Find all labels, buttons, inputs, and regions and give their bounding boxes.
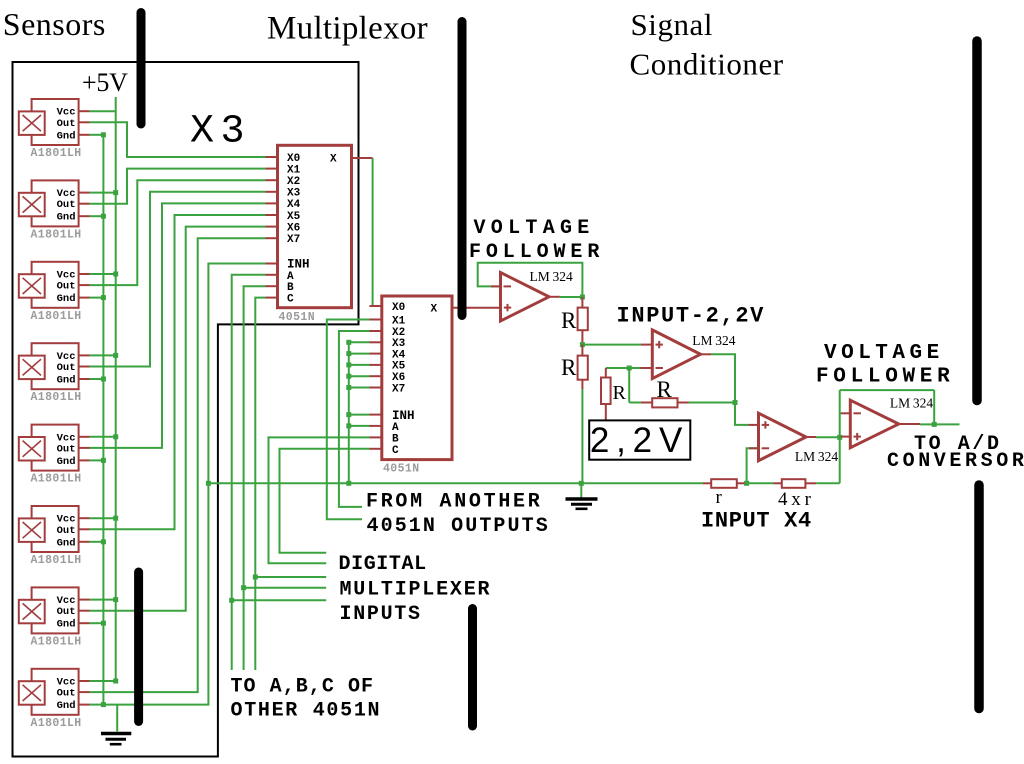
svg-text:Gnd: Gnd <box>57 130 76 142</box>
label DIGITAL MULTIPLEXER INPUTS <box>339 553 492 626</box>
wire S7 Gnd to GND rail <box>90 622 104 624</box>
wire to main ground symbol <box>580 483 582 497</box>
svg-text:Gnd: Gnd <box>57 293 76 305</box>
label A1801LH (S6) <box>31 554 82 567</box>
junction S1 Gnd <box>101 132 106 137</box>
wire U3D - input <box>840 412 850 414</box>
junction S3 Vcc <box>113 272 118 277</box>
ground symbol (main) <box>566 499 598 509</box>
label INPUT X4 <box>701 509 812 534</box>
svg-text:Out: Out <box>57 606 76 618</box>
label U2 4051N <box>383 463 420 476</box>
wire U3B output to feedback node <box>701 354 736 402</box>
wire S7 Out to U1 X6 <box>90 227 266 611</box>
wire U1 A (to A bus) <box>232 275 327 670</box>
junction U3B - node <box>627 366 632 371</box>
label A1801LH (S1) <box>31 147 82 160</box>
wire S1 Gnd to GND rail <box>90 134 104 136</box>
label A1801LH (S8) <box>31 717 82 730</box>
section title: Sensors <box>3 6 106 42</box>
label X3 <box>190 110 251 155</box>
op-amp U3A LM324 voltage follower <box>501 273 550 322</box>
svg-text:Out: Out <box>57 443 76 455</box>
wire U2 X3..X7,INH,A stub bus to gnd <box>346 340 369 484</box>
svg-text:Gnd: Gnd <box>57 212 76 224</box>
source box 2,2V <box>589 420 690 460</box>
svg-text:+5V: +5V <box>82 68 128 97</box>
svg-text:Gnd: Gnd <box>57 375 76 387</box>
wire U3C output <box>806 436 840 438</box>
wire S1 Vcc to +5V rail <box>90 110 116 112</box>
svg-text:Gnd: Gnd <box>57 456 76 468</box>
label R3 <box>613 382 627 404</box>
svg-text:X: X <box>431 304 438 316</box>
svg-text:X3: X3 <box>190 110 251 155</box>
wire S1 Out to U1 X0 <box>90 122 266 157</box>
svg-text:X3: X3 <box>287 188 301 200</box>
svg-text:CONVERSOR: CONVERSOR <box>887 450 1024 473</box>
svg-text:Out: Out <box>57 118 76 130</box>
label LM324 (U3B) <box>692 333 735 348</box>
+5V rail <box>115 97 117 681</box>
label TO A,B,C OF OTHER 4051N <box>231 676 382 723</box>
svg-text:A1801LH: A1801LH <box>31 554 82 567</box>
label TO A/D CONVERSOR <box>887 433 1024 473</box>
label R1 <box>561 308 577 333</box>
wire U2 C to digital inputs <box>280 449 370 553</box>
label FROM ANOTHER 4051N OUTPUTS <box>366 491 550 539</box>
junction gnd bus / ground <box>579 481 584 486</box>
svg-text:A1801LH: A1801LH <box>31 717 82 730</box>
label LM324 (U3A) <box>530 269 573 284</box>
sensor S8 A1801LH <box>19 669 90 715</box>
divider bar (multiplexor bottom) <box>468 609 477 727</box>
wire S2 Vcc to +5V rail <box>90 192 116 194</box>
wire U2 X2 from another 4051N <box>339 331 370 507</box>
svg-text:LM 324: LM 324 <box>530 269 573 284</box>
label R4 <box>657 377 673 402</box>
wire U3A output <box>549 296 582 298</box>
sensor S1 A1801LH <box>19 99 90 145</box>
multiplexer U2 4051N <box>370 296 453 460</box>
junction S7 Gnd <box>101 621 106 626</box>
multiplexor box outline <box>13 62 359 757</box>
svg-text:INPUT X4: INPUT X4 <box>701 509 812 534</box>
label +5V <box>82 68 128 97</box>
junction divider node <box>580 342 585 347</box>
svg-text:VOLTAGE: VOLTAGE <box>474 217 595 240</box>
svg-text:A1801LH: A1801LH <box>31 147 82 160</box>
svg-text:C: C <box>392 445 399 457</box>
sensor S3 A1801LH <box>19 262 90 308</box>
junction U3C output node <box>837 435 842 440</box>
wire U3C - input <box>747 448 759 483</box>
svg-text:A1801LH: A1801LH <box>31 635 82 648</box>
wire S6 Out to U1 X5 <box>90 215 266 529</box>
svg-text:X0: X0 <box>392 302 405 314</box>
wire S3 Gnd to GND rail <box>90 297 104 299</box>
label VOLTAGE FOLLOWER (left) <box>469 217 604 264</box>
wire feedback node to U3C + input <box>735 403 758 425</box>
label INPUT-2,2V <box>617 304 766 329</box>
op-amp U3D LM324 <box>850 400 898 448</box>
junction R4/feedback node <box>733 400 738 405</box>
label A1801LH (S3) <box>31 310 82 323</box>
resistor 4xr <box>749 479 840 488</box>
svg-text:OTHER 4051N: OTHER 4051N <box>231 699 382 722</box>
wire S5 Vcc to +5V rail <box>90 436 116 438</box>
wire S4 Vcc to +5V rail <box>90 354 116 356</box>
junction S4 Vcc <box>113 353 118 358</box>
wire U1 C (to C bus) <box>255 298 326 670</box>
wire S6 Gnd to GND rail <box>90 541 104 543</box>
junction S2 Vcc <box>113 190 118 195</box>
wire S3 Out to U1 X2 <box>90 180 266 285</box>
svg-text:A1801LH: A1801LH <box>31 473 82 486</box>
label 4xr <box>778 489 812 510</box>
junction stub bus / gnd bus <box>346 481 351 486</box>
svg-text:INH: INH <box>392 409 415 423</box>
label LM324 (U3D) <box>890 396 933 411</box>
svg-text:A1801LH: A1801LH <box>31 391 82 404</box>
ground symbol (sensors) <box>101 734 131 745</box>
svg-text:4051N OUTPUTS: 4051N OUTPUTS <box>367 515 550 538</box>
svg-text:INH: INH <box>287 258 310 272</box>
wire gnd node to sensor ground symbol <box>116 705 118 732</box>
wire divider node to U3B + <box>582 344 651 346</box>
op-amp U3C LM324 <box>759 413 807 461</box>
svg-text:X7: X7 <box>392 383 405 395</box>
svg-text:X3: X3 <box>392 338 406 350</box>
wire S8 Gnd to GND rail <box>90 704 104 706</box>
svg-text:Gnd: Gnd <box>57 700 76 712</box>
label A1801LH (S4) <box>31 391 82 404</box>
wire S8 Out to U1 X7 <box>90 238 266 692</box>
wire S4 Out to U1 X3 <box>90 192 266 367</box>
svg-text:Out: Out <box>57 281 76 293</box>
svg-text:Sensors: Sensors <box>3 6 106 42</box>
junction U3A output node <box>580 295 585 300</box>
wire U3D output <box>899 423 960 425</box>
junction S4 Gnd <box>101 377 106 382</box>
label R2 <box>561 355 577 380</box>
wire U3D feedback <box>840 390 935 483</box>
svg-text:MULTIPLEXER: MULTIPLEXER <box>340 579 492 602</box>
svg-text:Out: Out <box>57 525 76 537</box>
svg-text:LM 324: LM 324 <box>692 333 735 348</box>
svg-text:X5: X5 <box>287 211 301 223</box>
multiplexer U1 4051N <box>266 145 373 307</box>
wire U1 X out to U2 X0 <box>372 158 374 306</box>
svg-text:R: R <box>561 308 577 333</box>
resistor R4 (feedback) <box>629 368 735 407</box>
divider bar (sensors bottom) <box>134 572 143 722</box>
svg-text:4 x r: 4 x r <box>778 489 812 510</box>
junction S2 Gnd <box>101 214 106 219</box>
divider bar (signal conditioner top) <box>972 41 982 401</box>
svg-text:C: C <box>287 294 294 306</box>
divider bar (signal conditioner bottom) <box>974 485 984 709</box>
svg-text:Out: Out <box>57 688 76 700</box>
wire S3 Vcc to +5V rail <box>90 273 116 275</box>
divider bar (multiplexor) <box>458 22 467 316</box>
resistor r <box>703 479 745 488</box>
wire S2 Out to U1 X1 <box>90 169 266 204</box>
svg-text:LM 324: LM 324 <box>890 396 933 411</box>
svg-text:DIGITAL: DIGITAL <box>339 553 427 576</box>
wire U1 B (to B bus) <box>244 286 327 670</box>
section title: Multiplexor <box>267 10 428 46</box>
sensor S2 A1801LH <box>19 180 90 226</box>
label A1801LH (S5) <box>31 473 82 486</box>
wire U2 B to digital inputs <box>269 437 370 563</box>
svg-text:X: X <box>330 154 337 166</box>
junction S6 Gnd <box>101 539 106 544</box>
junction S3 Gnd <box>101 295 106 300</box>
svg-text:A1801LH: A1801LH <box>31 228 82 241</box>
junction S7 Vcc <box>113 597 118 602</box>
resistor R1 <box>578 297 588 345</box>
junction r/4xr node <box>744 481 749 486</box>
divider bar (sensors top) <box>137 13 146 125</box>
svg-text:X4: X4 <box>392 349 406 361</box>
junction U3D output node <box>932 422 937 427</box>
label LM324 (U3C) <box>795 449 838 464</box>
svg-text:Gnd: Gnd <box>57 537 76 549</box>
section title: Signal Conditioner <box>630 7 784 81</box>
wire U3D + input <box>840 436 850 438</box>
svg-text:X4: X4 <box>287 199 301 211</box>
junction sensor gnd node <box>101 702 106 707</box>
wire S5 Out to U1 X4 <box>90 203 266 448</box>
label VOLTAGE FOLLOWER (right) <box>816 342 954 389</box>
ground bus wire <box>208 482 703 484</box>
svg-text:X2: X2 <box>287 176 300 188</box>
wire S8 Vcc to +5V rail <box>90 680 116 682</box>
wire U1 INH to ground bus <box>103 264 265 705</box>
svg-text:Multiplexor: Multiplexor <box>267 10 428 46</box>
svg-text:Signal: Signal <box>631 7 714 42</box>
label A1801LH (S2) <box>31 228 82 241</box>
svg-text:X7: X7 <box>287 234 300 246</box>
svg-text:Out: Out <box>57 199 76 211</box>
svg-text:R: R <box>613 382 627 404</box>
svg-text:LM 324: LM 324 <box>795 449 838 464</box>
wire S2 Gnd to GND rail <box>90 215 104 217</box>
wire S5 Gnd to GND rail <box>90 459 104 461</box>
svg-text:X1: X1 <box>287 164 301 176</box>
wire S4 Gnd to GND rail <box>90 378 104 380</box>
sensor S7 A1801LH <box>19 587 90 633</box>
label A1801LH (S7) <box>31 635 82 648</box>
svg-text:FOLLOWER: FOLLOWER <box>816 366 954 389</box>
wire U2 X out to U3A + input <box>452 307 500 309</box>
svg-text:r: r <box>716 487 723 508</box>
sensor S4 A1801LH <box>19 343 90 389</box>
svg-text:R: R <box>657 377 673 402</box>
svg-text:Conditioner: Conditioner <box>630 46 784 81</box>
op-amp U3B LM324 <box>652 330 700 379</box>
svg-text:Out: Out <box>57 362 76 374</box>
junction INH bus / gnd bus <box>206 481 211 486</box>
label r <box>716 487 723 508</box>
svg-text:A: A <box>392 422 399 434</box>
svg-text:X0: X0 <box>287 153 300 165</box>
svg-text:B: B <box>392 433 399 445</box>
svg-text:X6: X6 <box>287 222 300 234</box>
sensor S6 A1801LH <box>19 506 90 552</box>
GND rail <box>102 135 104 705</box>
svg-text:FROM ANOTHER: FROM ANOTHER <box>366 491 542 514</box>
junction S6 Vcc <box>113 516 118 521</box>
junction S5 Gnd <box>101 458 106 463</box>
svg-text:Gnd: Gnd <box>57 619 76 631</box>
svg-text:4051N: 4051N <box>279 311 316 324</box>
junction A bus <box>229 598 234 603</box>
svg-text:X1: X1 <box>392 315 406 327</box>
junction S5 Vcc <box>113 434 118 439</box>
svg-text:A: A <box>287 271 294 283</box>
junction C bus <box>253 575 258 580</box>
svg-text:4051N: 4051N <box>383 463 420 476</box>
svg-text:TO A,B,C OF: TO A,B,C OF <box>231 676 375 699</box>
sensor S5 A1801LH <box>19 425 90 471</box>
resistor R3 <box>601 368 611 420</box>
resistor R2 <box>578 345 588 484</box>
label U1 4051N <box>279 311 316 324</box>
wire S6 Vcc to +5V rail <box>90 517 116 519</box>
svg-text:R: R <box>561 355 577 380</box>
svg-text:INPUTS: INPUTS <box>340 603 422 626</box>
junction S8 Vcc <box>113 679 118 684</box>
svg-text:INPUT-2,2V: INPUT-2,2V <box>617 304 766 329</box>
wire U3A feedback <box>478 263 583 297</box>
svg-text:2,2V: 2,2V <box>590 421 689 460</box>
junction B bus <box>241 585 246 590</box>
svg-text:X5: X5 <box>392 361 406 373</box>
svg-text:VOLTAGE: VOLTAGE <box>824 342 944 365</box>
svg-text:X2: X2 <box>392 327 405 339</box>
svg-text:X6: X6 <box>392 372 405 384</box>
svg-text:FOLLOWER: FOLLOWER <box>469 241 604 264</box>
svg-text:B: B <box>287 282 294 294</box>
svg-text:A1801LH: A1801LH <box>31 310 82 323</box>
wire U3B - input <box>606 367 652 369</box>
wire S7 Vcc to +5V rail <box>90 599 116 601</box>
wire U2 X1 from another 4051N <box>327 320 370 520</box>
